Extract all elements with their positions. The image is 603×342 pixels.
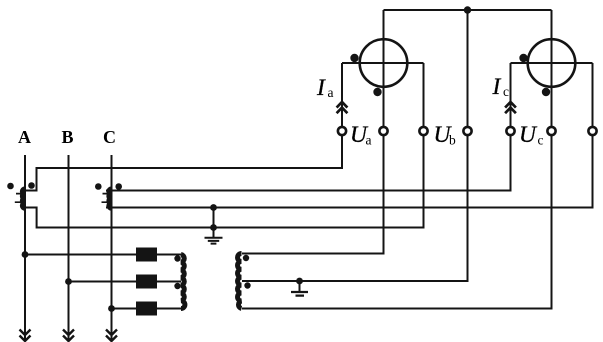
node top junction bbox=[464, 6, 471, 13]
arrow Ic current direction bbox=[505, 102, 516, 113]
terminal Ub bbox=[463, 127, 471, 135]
ground VT secondary bbox=[291, 292, 308, 296]
wire VT primary row A bbox=[25, 254, 181, 256]
node CT ground junction lower bbox=[210, 224, 217, 231]
svg-text:a: a bbox=[366, 133, 372, 148]
node VT secondary coil dot upper bbox=[243, 255, 249, 261]
arrow phase B load bbox=[63, 330, 74, 342]
terminal Ic bbox=[506, 127, 514, 135]
svg-text:I: I bbox=[492, 74, 502, 100]
svg-text:U: U bbox=[519, 122, 538, 148]
svg-text:b: b bbox=[449, 133, 456, 148]
wire VT ground stem bbox=[299, 281, 301, 292]
svg-text:A: A bbox=[18, 127, 31, 147]
transformer VT primary winding A bbox=[136, 248, 157, 262]
wire CT-C secondary bottom return bbox=[106, 136, 593, 208]
wire phase C bbox=[111, 155, 113, 340]
wire phase B bbox=[68, 155, 70, 340]
node VT tap phase B bbox=[65, 278, 72, 285]
wire W1 current right drop bbox=[423, 63, 425, 126]
wire top bus bbox=[384, 9, 552, 11]
svg-text:B: B bbox=[61, 127, 73, 147]
wire CT-A secondary bottom return bbox=[23, 136, 424, 228]
node VT secondary ground junction bbox=[296, 278, 303, 285]
wattmeter W2 bbox=[528, 39, 576, 87]
arrow phase A load bbox=[20, 330, 31, 342]
wire VT primary row B bbox=[69, 281, 182, 283]
node CT ground junction upper bbox=[210, 204, 217, 211]
svg-text:a: a bbox=[328, 85, 334, 100]
wire W2 current coil bbox=[511, 62, 593, 64]
node VT secondary coil dot middle bbox=[244, 282, 250, 288]
wire CT-C secondary top to Ic terminal bbox=[106, 136, 511, 191]
wire W1 voltage coil vertical bbox=[383, 10, 385, 126]
terminal W1 return bbox=[419, 127, 427, 135]
wire W1 current left drop bbox=[341, 63, 343, 126]
transformer VT secondary coil column bbox=[238, 254, 242, 309]
wire W2 current right drop bbox=[592, 63, 594, 126]
wire W2 voltage coil vertical bbox=[551, 10, 553, 126]
transformer CT-A secondary winding bbox=[23, 189, 25, 208]
node CT-C secondary polarity dot bbox=[115, 183, 122, 190]
node VT primary coil dot middle bbox=[174, 283, 180, 289]
arrow phase C load bbox=[106, 330, 117, 342]
node W2 current polarity dot bbox=[519, 54, 527, 62]
transformer VT primary coil column bbox=[181, 255, 185, 309]
node CT-C primary polarity dot bbox=[95, 183, 102, 190]
terminal Ia bbox=[338, 127, 346, 135]
wire W2 current left drop bbox=[510, 63, 512, 126]
wire VT secondary a to Ua terminal bbox=[242, 136, 384, 254]
wire VT secondary c to Uc terminal bbox=[242, 136, 552, 309]
terminal Ua bbox=[379, 127, 387, 135]
wire VT secondary b to Ub terminal bbox=[242, 136, 468, 281]
transformer VT primary winding C bbox=[136, 302, 157, 316]
transformer CT-C secondary winding bbox=[109, 189, 111, 208]
arrow Ia current direction bbox=[337, 102, 348, 113]
node CT-A secondary polarity dot bbox=[28, 182, 35, 189]
terminal Uc bbox=[547, 127, 555, 135]
terminal W2 return bbox=[588, 127, 596, 135]
node CT-A primary polarity dot bbox=[7, 183, 14, 190]
node VT primary coil dot upper bbox=[174, 255, 180, 261]
ground CT secondary bbox=[205, 238, 223, 244]
node VT tap phase C bbox=[108, 305, 115, 312]
wire CT-A secondary top to Ia terminal bbox=[23, 136, 342, 191]
svg-text:C: C bbox=[103, 127, 116, 147]
wire W1 current coil bbox=[342, 62, 424, 64]
wire Ub middle drop bbox=[467, 10, 469, 126]
svg-text:I: I bbox=[316, 75, 326, 101]
wire phase A bbox=[24, 155, 26, 340]
node W1 current polarity dot bbox=[350, 54, 358, 62]
node VT tap phase A bbox=[22, 251, 29, 258]
transformer VT primary winding B bbox=[136, 275, 157, 289]
wire VT primary row C bbox=[112, 308, 182, 310]
node W1 voltage polarity dot bbox=[373, 88, 381, 96]
node W2 voltage polarity dot bbox=[542, 88, 550, 96]
svg-text:c: c bbox=[503, 84, 509, 99]
wattmeter W1 bbox=[360, 39, 408, 87]
svg-text:c: c bbox=[538, 133, 544, 148]
wire CT ground stem bbox=[213, 208, 215, 238]
